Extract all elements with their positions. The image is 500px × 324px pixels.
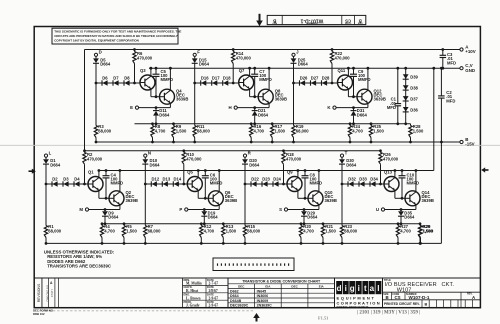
title block top line xyxy=(34,277,480,279)
svg-text:THIS SCHEMATIC IS FURNISHED ON: THIS SCHEMATIC IS FURNISHED ONLY FOR TES… xyxy=(54,30,181,34)
resistor R23 68,000 (input load) xyxy=(341,184,343,226)
resistor R15 68,000 (input load) xyxy=(244,184,246,226)
svg-text:T: T xyxy=(345,150,348,155)
svg-text:REV: REV xyxy=(272,22,277,24)
resistor R9 1,500 xyxy=(172,122,175,125)
svg-text:1,500: 1,500 xyxy=(176,129,187,134)
svg-text:D664: D664 xyxy=(346,162,357,167)
svg-text:R. Hisst: R. Hisst xyxy=(186,289,199,293)
fold-mark arrow (top margin, pointing down) xyxy=(259,14,261,21)
wire Q3 emitter to Q4 base xyxy=(150,89,152,97)
strobe wire xyxy=(89,209,120,211)
resistor R20 4,700 xyxy=(300,222,303,225)
svg-text:D664: D664 xyxy=(100,62,111,67)
input wire down to gate line xyxy=(144,164,146,184)
svg-text:470,000: 470,000 xyxy=(137,56,153,61)
terminal A +10V xyxy=(455,49,460,51)
svg-text:D664: D664 xyxy=(307,215,318,220)
strobe terminal pin U xyxy=(381,208,384,211)
-15V rail (top row) xyxy=(95,141,460,143)
transistor Q10 DEC 3639B xyxy=(308,191,323,206)
svg-text:D: D xyxy=(99,50,102,55)
perforation marks along bottom edge xyxy=(40,310,42,312)
diode D37 xyxy=(403,96,409,101)
svg-text:4,700: 4,700 xyxy=(155,129,166,134)
svg-text:Q1: Q1 xyxy=(88,170,94,175)
wire Q2 emitter to strobe line xyxy=(119,205,121,210)
svg-text:SIZE: SIZE xyxy=(357,22,362,24)
strobe wire xyxy=(139,107,171,109)
svg-text:2-7-67: 2-7-67 xyxy=(209,282,219,286)
wire Q5 collector to ground rail xyxy=(197,171,199,178)
wire Q1 collector to ground rail xyxy=(98,171,100,178)
wire Q8 collector to ground rail xyxy=(268,68,270,90)
wire Q12 collector to ground rail xyxy=(367,68,369,90)
digital logo xyxy=(335,278,383,308)
svg-text:D664: D664 xyxy=(230,294,239,298)
svg-text:1,500: 1,500 xyxy=(126,229,137,234)
svg-text:EIA: EIA xyxy=(265,284,271,288)
diode D10 D664 (input clamp) xyxy=(144,157,146,159)
transistor Q2 DEC 3639B xyxy=(109,191,124,206)
input wire down to gate line xyxy=(293,63,295,83)
resistor R25 1,500 xyxy=(370,122,373,125)
svg-text:CODE: CODE xyxy=(344,22,351,24)
svg-text:MAYNARD, MASSACHUSETTS: MAYNARD, MASSACHUSETTS xyxy=(337,305,369,308)
resistor R29 1,500 (bias bleed, bottom row) xyxy=(420,224,422,226)
diode D38 xyxy=(403,85,409,90)
svg-text:D38: D38 xyxy=(410,86,418,91)
svg-text:CIRCUITS ARE PROPRIETARY IN NA: CIRCUITS ARE PROPRIETARY IN NATURE AND S… xyxy=(54,34,178,38)
diode D21 D664 (strobe) xyxy=(254,108,256,111)
svg-text:D664: D664 xyxy=(258,112,269,117)
wire Q6 emitter to strobe line xyxy=(218,205,220,210)
svg-text:N: N xyxy=(148,150,151,155)
svg-text:L: L xyxy=(49,150,52,155)
input wire down to gate line xyxy=(45,164,47,184)
svg-text:D7: D7 xyxy=(113,75,119,80)
svg-text:GND: GND xyxy=(465,68,475,73)
svg-text:MMFD: MMFD xyxy=(259,77,272,82)
resistor R4 4,700 xyxy=(101,222,104,225)
svg-text:D664: D664 xyxy=(249,162,260,167)
strobe wire xyxy=(336,107,368,109)
svg-text:S: S xyxy=(279,207,282,212)
resistor R19 68,000 (input load) xyxy=(293,83,295,126)
capacitor C4 100 MMFD xyxy=(105,171,107,176)
diode D1 D664 (input clamp) xyxy=(45,157,47,159)
svg-text:IN3606: IN3606 xyxy=(257,294,269,298)
wire Q11 emitter to Q12 base xyxy=(347,89,349,97)
series gate diodes D6 D7 D8 xyxy=(96,82,140,84)
svg-text:1,500: 1,500 xyxy=(275,129,286,134)
svg-text:68,000: 68,000 xyxy=(98,129,111,134)
svg-text:MMFD: MMFD xyxy=(210,180,223,185)
svg-text:D664: D664 xyxy=(108,215,119,220)
svg-text:470,000: 470,000 xyxy=(335,56,351,61)
svg-text:IN645: IN645 xyxy=(257,289,267,293)
wire Q4 emitter to strobe line xyxy=(169,103,171,108)
transistor Q13 xyxy=(384,177,399,192)
ground rail (top row) xyxy=(149,67,460,69)
input terminal pin N xyxy=(144,154,147,157)
input wire down to gate line xyxy=(95,63,97,83)
svg-text:REVISIONS: REVISIONS xyxy=(37,283,41,302)
resistor R5 1,500 xyxy=(123,222,126,225)
svg-text:D22: D22 xyxy=(251,176,259,181)
diode D19 D664 (strobe) xyxy=(203,210,205,212)
-15V riser wire with capacitor C2 to bottom row xyxy=(440,68,442,96)
left edge wire from +10V rail down to lower-row feed xyxy=(84,50,86,151)
svg-text:M. Mullin: M. Mullin xyxy=(186,282,202,286)
svg-text:Q7: Q7 xyxy=(239,68,245,73)
svg-text:1,500: 1,500 xyxy=(423,229,434,234)
svg-text:t: t xyxy=(364,284,367,293)
edge connector contact fingers xyxy=(217,263,219,265)
resistor R2 470,000 xyxy=(84,151,86,153)
diode D29 D664 (strobe) xyxy=(303,210,305,212)
svg-text:1,500: 1,500 xyxy=(226,229,237,234)
upside-down title strip box (reads W107-D-1 when folded) xyxy=(267,15,366,24)
transistor Q6 DEC 3639B xyxy=(208,191,223,206)
svg-text:DEC3639C: DEC3639C xyxy=(230,304,249,308)
svg-text:IN3609: IN3609 xyxy=(257,299,269,303)
svg-text:D27: D27 xyxy=(311,75,319,80)
svg-text:68,000: 68,000 xyxy=(148,229,161,234)
wire Q11 collector to ground rail xyxy=(347,68,349,76)
svg-text:D14: D14 xyxy=(174,176,182,181)
svg-text:TRANSISTOR & DIODE CONVERSION: TRANSISTOR & DIODE CONVERSION CHART xyxy=(242,279,321,283)
bias bus (bottom row) xyxy=(102,223,421,225)
svg-text:D36: D36 xyxy=(410,107,418,112)
diode D20 D664 (input clamp) xyxy=(244,157,246,159)
svg-text:C O R P O R A T I O N: C O R P O R A T I O N xyxy=(337,301,380,306)
svg-text:D13: D13 xyxy=(163,176,171,181)
svg-text:D32: D32 xyxy=(348,176,356,181)
svg-text:3639B: 3639B xyxy=(325,198,337,203)
strobe terminal pin K xyxy=(333,106,336,109)
resistor R21 1,500 xyxy=(322,222,325,225)
wire Q10 collector to ground rail xyxy=(318,171,320,192)
strobe wire xyxy=(237,107,269,109)
svg-text:DEC: DEC xyxy=(291,284,298,288)
svg-text:2-9-67: 2-9-67 xyxy=(209,304,219,308)
svg-text:2/8/67: 2/8/67 xyxy=(209,289,218,293)
svg-text:CHK CHG NO.: CHK CHG NO. xyxy=(45,284,49,302)
svg-text:2-9-67: 2-9-67 xyxy=(209,296,219,300)
+10V feed rail (bottom row) xyxy=(85,150,381,152)
transistor Q12 DEC 3639B xyxy=(357,89,372,104)
fold-mark arrow (left margin, pointing right) xyxy=(29,170,33,172)
border frame of drawing sheet xyxy=(34,27,480,308)
resistor R18 470,000 xyxy=(282,149,285,152)
svg-text:D664: D664 xyxy=(208,215,219,220)
svg-text:3639B: 3639B xyxy=(126,198,138,203)
copyright notice box xyxy=(52,28,178,44)
series gate diodes D22 D23 D24 xyxy=(245,183,287,185)
resistor R27 4,700 xyxy=(397,222,400,225)
svg-text:3639B: 3639B xyxy=(374,97,386,102)
svg-text:470,000: 470,000 xyxy=(383,157,399,162)
wire Q12 emitter to strobe line xyxy=(367,103,369,108)
strobe terminal pin H xyxy=(234,106,237,109)
svg-text:B: B xyxy=(386,295,389,300)
svg-text:D2: D2 xyxy=(52,176,58,181)
svg-text:4,700: 4,700 xyxy=(352,129,363,134)
wire Q9 emitter to Q10 base xyxy=(297,190,299,198)
resistor R13 1,500 xyxy=(222,222,225,225)
svg-text:D6: D6 xyxy=(102,75,108,80)
svg-text:470,000: 470,000 xyxy=(87,157,103,162)
series gate diodes D12 D13 D14 xyxy=(145,183,187,185)
svg-text:l: l xyxy=(377,284,379,293)
svg-text:MFD: MFD xyxy=(446,98,455,103)
svg-text:MMFD: MMFD xyxy=(310,180,323,185)
wire Q7 collector to ground rail xyxy=(249,68,251,76)
transistor Q9 xyxy=(287,177,302,192)
svg-text:CKT.: CKT. xyxy=(442,282,455,288)
resistor R8 4,700 xyxy=(151,122,154,125)
wire Q9 collector to ground rail xyxy=(297,171,299,178)
transistor and diode conversion chart xyxy=(228,278,335,308)
svg-text:MMFD: MMFD xyxy=(161,77,174,82)
input terminal pin F xyxy=(193,53,196,56)
ground riser wire to bottom row xyxy=(433,68,435,170)
transistor Q7 xyxy=(239,75,254,90)
series gate diodes D32 D33 D34 xyxy=(342,183,384,185)
svg-text:NUMBER: NUMBER xyxy=(307,22,317,24)
svg-text:MMFD: MMFD xyxy=(358,77,371,82)
wire Q10 emitter to strobe line xyxy=(318,205,320,210)
strobe wire xyxy=(288,209,319,211)
svg-text:D664: D664 xyxy=(357,112,368,117)
svg-text:D39: D39 xyxy=(410,75,418,80)
svg-text:a: a xyxy=(370,284,375,293)
svg-text:H: H xyxy=(229,105,232,110)
svg-text:PRINTED CIRCUIT REV.: PRINTED CIRCUIT REV. xyxy=(384,302,420,306)
svg-text:D12: D12 xyxy=(152,176,160,181)
svg-text:D17: D17 xyxy=(212,75,220,80)
svg-text:4,700: 4,700 xyxy=(254,129,265,134)
size/code/number/rev row xyxy=(383,291,481,293)
svg-text:Q3: Q3 xyxy=(140,68,146,73)
svg-text:J. Grady: J. Grady xyxy=(186,304,200,308)
svg-text:470,000: 470,000 xyxy=(286,157,302,162)
svg-text:D37: D37 xyxy=(410,96,418,101)
svg-text:470,000: 470,000 xyxy=(186,157,202,162)
svg-text:D16: D16 xyxy=(201,75,209,80)
wire Q14 collector to ground rail xyxy=(415,171,417,192)
diode D9 D664 (strobe) xyxy=(104,210,106,212)
input terminal pin D xyxy=(94,53,97,56)
input terminal pin T xyxy=(340,154,343,157)
svg-text:D34: D34 xyxy=(370,176,378,181)
svg-text:D3: D3 xyxy=(63,176,69,181)
svg-text:68,000: 68,000 xyxy=(344,229,357,234)
svg-text:MFD: MFD xyxy=(447,60,456,65)
diode D11 D664 (strobe) xyxy=(155,108,157,111)
resistor R17 1,500 xyxy=(271,122,274,125)
resistor R7 68,000 (input load) xyxy=(144,184,146,226)
svg-text:4,700: 4,700 xyxy=(303,229,314,234)
svg-text:2N3639C: 2N3639C xyxy=(257,304,273,308)
svg-text:d: d xyxy=(337,284,342,293)
strobe terminal pin S xyxy=(284,208,287,211)
svg-text:DRB 102: DRB 102 xyxy=(33,312,45,316)
terminal C,V GND xyxy=(460,67,463,70)
capacitor C5 100 MMFD xyxy=(155,68,157,74)
input terminal pin R xyxy=(243,154,246,157)
svg-text:D23: D23 xyxy=(262,176,270,181)
svg-text:1,500: 1,500 xyxy=(373,129,384,134)
svg-text:U: U xyxy=(376,207,379,212)
svg-text:DEC: DEC xyxy=(238,284,245,288)
svg-text:Q9: Q9 xyxy=(287,170,293,175)
fold crease line across sheet xyxy=(0,144,500,146)
svg-text:D33: D33 xyxy=(359,176,367,181)
diode D30 D664 (input clamp) xyxy=(341,157,343,159)
svg-text:F: F xyxy=(197,50,200,55)
resistor R11 68,000 (input load) xyxy=(194,83,196,126)
diode D31 D664 (strobe) xyxy=(353,108,355,111)
capacitor C9 100 MMFD xyxy=(353,68,355,74)
signature block grid xyxy=(183,278,229,308)
svg-text:470,000: 470,000 xyxy=(236,56,252,61)
svg-text:3639B: 3639B xyxy=(176,97,188,102)
capacitor C2 .01 MFD xyxy=(438,95,445,97)
input terminal pin L xyxy=(44,154,47,157)
resistor R26 470,000 xyxy=(379,149,382,152)
bias diode stack column wire xyxy=(405,68,407,124)
resistor R6 470,000 xyxy=(133,48,136,51)
svg-text:+10V: +10V xyxy=(465,49,475,54)
wire Q1 emitter to Q2 base xyxy=(98,190,100,198)
capacitor C8 100 MMFD xyxy=(304,171,306,176)
capacitor C1 .01 MFD branch xyxy=(397,68,399,103)
series gate diodes D2 D3 D4 xyxy=(46,183,88,185)
resistor R3 68,000 (input load) xyxy=(95,83,97,126)
diode D35 D664 (strobe) xyxy=(400,210,402,212)
svg-text:i: i xyxy=(358,284,360,293)
svg-text:D664: D664 xyxy=(150,162,161,167)
resistor R1 68,000 (input load) xyxy=(45,184,47,226)
svg-text:Q5: Q5 xyxy=(187,170,193,175)
capacitor C3 .01 MFD xyxy=(442,50,444,56)
transistor Q5 xyxy=(187,177,202,192)
strobe wire xyxy=(188,209,219,211)
svg-text:i: i xyxy=(345,284,347,293)
svg-text:0 5 8 7: 0 5 8 7 xyxy=(50,288,54,296)
svg-text:EIA: EIA xyxy=(319,284,325,288)
svg-text:D662: D662 xyxy=(230,289,239,293)
wire Q8 emitter to strobe line xyxy=(268,103,270,108)
fold-mark arrow (right margin, pointing left) xyxy=(485,169,489,171)
svg-text:MMFD: MMFD xyxy=(111,180,124,185)
bias bus (top row) xyxy=(135,123,411,125)
svg-text:D664: D664 xyxy=(199,62,210,67)
revisions block xyxy=(34,278,42,308)
svg-text:D26: D26 xyxy=(300,75,308,80)
transistor Q11 xyxy=(338,75,353,90)
svg-text:4,700: 4,700 xyxy=(400,229,411,234)
svg-text:D664B: D664B xyxy=(230,299,242,303)
capacitor C6 100 MMFD xyxy=(204,171,206,176)
svg-text:68,000: 68,000 xyxy=(247,229,260,234)
input wire down to gate line xyxy=(341,164,343,184)
transistor Q3 xyxy=(140,75,155,90)
svg-text:3639B: 3639B xyxy=(275,97,287,102)
wire Q13 emitter to Q14 base xyxy=(394,190,396,198)
svg-text:D664: D664 xyxy=(159,112,170,117)
svg-text:D28: D28 xyxy=(322,75,330,80)
+10V rail (top row) xyxy=(85,49,460,51)
svg-text:3639B: 3639B xyxy=(422,198,434,203)
resistor R29 1,500 xyxy=(419,222,422,225)
-15V rail (bottom row) xyxy=(46,242,441,244)
resistor R22 470,000 xyxy=(331,48,334,51)
wire Q5 emitter to Q6 base xyxy=(197,190,199,198)
series gate diodes D16 D17 D18 xyxy=(195,82,239,84)
svg-text:68,000: 68,000 xyxy=(197,129,210,134)
svg-text:MFD: MFD xyxy=(387,105,396,110)
svg-text:D24: D24 xyxy=(273,176,281,181)
wire Q2 collector to ground rail xyxy=(119,171,121,192)
svg-text:Q13: Q13 xyxy=(384,170,393,175)
svg-text:68,000: 68,000 xyxy=(296,129,309,134)
svg-text:W107-D-1: W107-D-1 xyxy=(409,295,430,300)
svg-text:D664: D664 xyxy=(50,162,61,167)
svg-text:D664: D664 xyxy=(404,215,415,220)
fold-mark arrow (bottom, pointing up) xyxy=(256,317,258,322)
capacitor C7 100 MMFD xyxy=(254,68,256,74)
series gate diodes D26 D27 D28 xyxy=(294,82,338,84)
svg-text:TRANSISTORS ARE DEC3639C: TRANSISTORS ARE DEC3639C xyxy=(47,264,111,269)
strobe terminal pin P xyxy=(185,208,188,211)
diode D39 xyxy=(403,74,409,79)
resistor R14 470,000 xyxy=(232,48,235,51)
svg-text:B: B xyxy=(425,303,428,307)
ground rail (bottom row) xyxy=(98,170,434,172)
transistor Q1 xyxy=(88,177,103,192)
strobe wire xyxy=(385,209,416,211)
svg-text:| 2101 | 319 | M3Y | V13 | 359: | 2101 | 319 | M3Y | V13 | 359 | xyxy=(357,311,420,316)
svg-text:F1.51: F1.51 xyxy=(318,316,328,321)
resistor R16 4,700 xyxy=(250,122,253,125)
svg-text:-15V: -15V xyxy=(465,142,474,147)
diode D36 xyxy=(403,107,409,112)
svg-text:D4: D4 xyxy=(74,176,80,181)
diode D5 D664 (input clamp) xyxy=(95,56,97,58)
wire Q3 collector to ground rail xyxy=(150,68,152,76)
svg-text:D18: D18 xyxy=(223,75,231,80)
diode D15 D664 (input clamp) xyxy=(194,56,196,58)
wire Q14 emitter to strobe line xyxy=(415,205,417,210)
wire Q4 collector to ground rail xyxy=(169,68,171,90)
svg-text:1,500: 1,500 xyxy=(413,129,424,134)
svg-text:68,000: 68,000 xyxy=(48,229,61,234)
svg-text:4,700: 4,700 xyxy=(204,229,215,234)
svg-text:g: g xyxy=(350,284,355,293)
svg-text:Q11: Q11 xyxy=(338,68,346,73)
wire Q7 emitter to Q8 base xyxy=(249,89,251,97)
transistor Q14 DEC 3639B xyxy=(405,191,420,206)
resistor R12 4,700 xyxy=(200,222,203,225)
capacitor C10 100 MMFD xyxy=(401,171,403,176)
resistor R24 4,700 xyxy=(349,122,352,125)
svg-text:P: P xyxy=(179,207,182,212)
svg-text:D664: D664 xyxy=(298,62,309,67)
svg-text:L. Brown: L. Brown xyxy=(186,296,201,300)
